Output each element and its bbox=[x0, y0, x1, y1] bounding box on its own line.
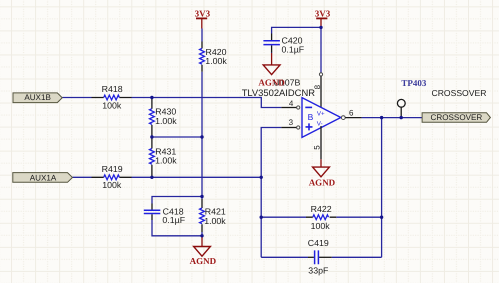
svg-text:AGND: AGND bbox=[258, 78, 285, 88]
svg-text:3V3: 3V3 bbox=[195, 9, 211, 19]
wire R418 to corner to pin4 bbox=[132, 98, 282, 108]
svg-text:CROSSOVER: CROSSOVER bbox=[432, 88, 487, 98]
ground AGND under opamp pin5 bbox=[309, 126, 336, 187]
svg-text:CROSSOVER: CROSSOVER bbox=[431, 113, 483, 122]
svg-text:AUX1A: AUX1A bbox=[30, 173, 57, 182]
svg-text:0.1µF: 0.1µF bbox=[162, 215, 185, 225]
wire main bias vertical bbox=[201, 29, 203, 236]
resistor R418 bbox=[92, 84, 132, 110]
junction dots bbox=[150, 96, 153, 99]
port AUX1A bbox=[13, 173, 73, 183]
wire R422 feedback bbox=[261, 216, 381, 218]
svg-text:0.1µF: 0.1µF bbox=[282, 44, 305, 54]
svg-text:6: 6 bbox=[349, 108, 354, 117]
resistor R419 bbox=[92, 164, 132, 190]
svg-text:1.00k: 1.00k bbox=[155, 116, 177, 126]
svg-text:TLV3502AIDCNR: TLV3502AIDCNR bbox=[242, 87, 316, 98]
resistor R420 bbox=[200, 42, 228, 72]
svg-text:V+: V+ bbox=[317, 111, 325, 118]
svg-text:R418: R418 bbox=[102, 84, 123, 94]
svg-text:100k: 100k bbox=[311, 221, 331, 231]
ground AGND under C420 bbox=[258, 53, 285, 88]
svg-text:V-: V- bbox=[317, 121, 323, 128]
svg-text:3V3: 3V3 bbox=[315, 9, 331, 19]
wire AUX1B to R418 bbox=[62, 97, 91, 99]
wire bottom C419 bbox=[261, 256, 381, 258]
wire AUX1A to R419 bbox=[72, 176, 91, 178]
test point TP403 bbox=[397, 78, 427, 118]
svg-text:1.00k: 1.00k bbox=[155, 156, 177, 166]
wire right vertical from output bbox=[381, 118, 383, 258]
capacitor C418 bbox=[144, 204, 186, 226]
wire R419 to left vertical bbox=[132, 176, 262, 178]
wire mid bias connector bbox=[152, 136, 202, 138]
op-amp U107B bbox=[242, 78, 362, 150]
wire output to CROSSOVER port bbox=[362, 117, 423, 119]
resistor R421 bbox=[200, 199, 227, 232]
resistor R431 bbox=[150, 137, 178, 177]
resistor R430 bbox=[150, 98, 178, 138]
svg-text:1.00k: 1.00k bbox=[204, 216, 226, 226]
wire 3V3 to C420 bbox=[272, 27, 321, 53]
power 3V3 left bbox=[195, 9, 211, 29]
svg-text:B: B bbox=[308, 112, 314, 122]
power 3V3 right bbox=[315, 9, 331, 28]
resistor R422 bbox=[306, 204, 336, 231]
svg-text:AGND: AGND bbox=[309, 177, 336, 187]
svg-text:100k: 100k bbox=[102, 100, 122, 110]
capacitor C420 bbox=[263, 34, 304, 55]
svg-text:R419: R419 bbox=[102, 164, 123, 174]
port AUX1B bbox=[13, 93, 62, 103]
svg-text:AUX1B: AUX1B bbox=[24, 93, 51, 102]
svg-text:5: 5 bbox=[313, 145, 322, 150]
svg-text:33pF: 33pF bbox=[308, 266, 329, 276]
svg-text:3: 3 bbox=[289, 118, 294, 127]
svg-text:C419: C419 bbox=[308, 238, 329, 248]
svg-text:4: 4 bbox=[289, 99, 294, 108]
port CROSSOVER bbox=[422, 113, 490, 123]
wire pin3 and left vertical down bbox=[261, 128, 281, 258]
capacitor C419 bbox=[308, 238, 332, 276]
svg-text:1.00k: 1.00k bbox=[205, 56, 227, 66]
svg-text:100k: 100k bbox=[102, 180, 122, 190]
wire 3V3 to opamp pin8 bbox=[320, 27, 322, 72]
svg-text:TP403: TP403 bbox=[401, 78, 427, 88]
wire C418 loop bbox=[152, 197, 202, 236]
svg-text:R422: R422 bbox=[311, 204, 332, 214]
ground AGND under R421 bbox=[190, 236, 217, 266]
svg-text:AGND: AGND bbox=[190, 256, 217, 266]
